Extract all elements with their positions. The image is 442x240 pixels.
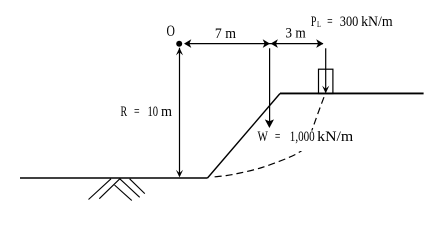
dimension line 7 m / 3 m: [185, 43, 323, 45]
arrowhead R up (below dot): [176, 48, 183, 56]
slope face line: [208, 94, 281, 179]
arrowhead 3m left: [271, 39, 278, 48]
weight line W (vertical): [269, 48, 271, 122]
arrowhead PL down: [322, 86, 329, 94]
svg-text:PL=300kN/m: PL=300kN/m: [311, 14, 393, 30]
arrowhead 3m right: [316, 39, 323, 48]
hatch mark 5: [130, 179, 145, 194]
svg-text:7 m: 7 m: [215, 26, 237, 42]
radius line R (vertical from O to base): [179, 48, 181, 176]
white text box behind W label: [253, 131, 358, 152]
svg-text:O: O: [167, 23, 175, 40]
slip circle dashed arc: [211, 93, 326, 177]
hatch mark 3 (offset): [115, 185, 132, 201]
hatch mark 2: [99, 179, 120, 199]
footing rectangle: [319, 69, 333, 93]
hatch mark 4: [120, 179, 140, 198]
arrowhead R down (at base line): [176, 170, 183, 178]
arrowhead 7m right: [263, 39, 270, 48]
arrowhead 7m left (at O): [184, 39, 191, 48]
arrowhead W down: [265, 119, 274, 128]
svg-text:R=10m: R=10m: [121, 104, 173, 120]
hatch mark 1: [89, 179, 112, 200]
load line PL (vertical): [325, 48, 327, 89]
svg-text:3 m: 3 m: [285, 26, 306, 42]
center point O dot: [176, 41, 182, 47]
ground line bottom (left of toe): [20, 177, 208, 179]
ground line top bench (right of crest): [280, 92, 424, 94]
